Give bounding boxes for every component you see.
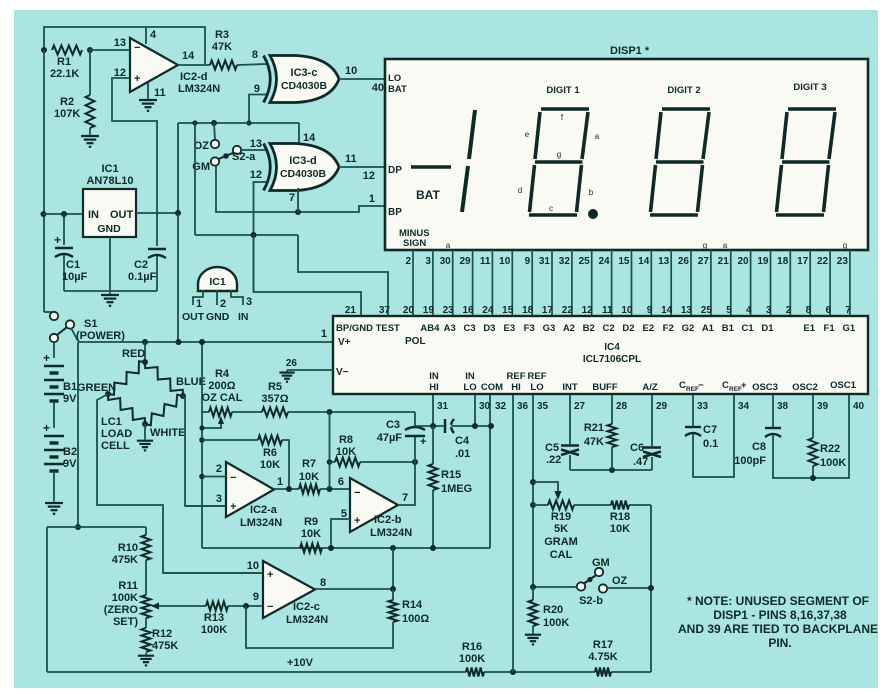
svg-text:10K: 10K — [610, 523, 630, 535]
wire RED node — [144, 342, 146, 362]
svg-text:CAL: CAL — [550, 549, 573, 561]
svg-text:5: 5 — [726, 305, 732, 316]
wire OZ net drop — [194, 123, 196, 235]
resistor R10 — [142, 535, 151, 560]
resistor R16 — [466, 668, 484, 677]
svg-text:11: 11 — [345, 153, 357, 165]
wire zero set top — [47, 526, 146, 528]
resistor R18 — [611, 501, 629, 510]
svg-text:47µF: 47µF — [377, 432, 403, 444]
svg-text:D2: D2 — [622, 323, 634, 334]
svg-text:25: 25 — [701, 305, 713, 316]
svg-text:.47: .47 — [633, 456, 648, 468]
svg-text:24: 24 — [482, 305, 494, 316]
svg-text:C5: C5 — [545, 442, 559, 454]
svg-text:DISP1 - PINS 8,16,37,38: DISP1 - PINS 8,16,37,38 — [713, 608, 847, 622]
node R8 top — [327, 409, 333, 415]
svg-text:33: 33 — [697, 401, 709, 412]
svg-text:100Ω: 100Ω — [402, 613, 429, 625]
svg-text:R15: R15 — [441, 469, 461, 481]
svg-text:R22: R22 — [820, 443, 840, 455]
R4 wiper — [202, 422, 221, 428]
capacitor C5 on pin27 — [569, 395, 571, 444]
svg-text:100K: 100K — [820, 457, 846, 469]
svg-text:LO: LO — [530, 382, 543, 393]
svg-text:G1: G1 — [843, 323, 856, 334]
wire IC1 OUT — [136, 212, 178, 214]
wire V- stub — [287, 369, 333, 371]
svg-text:30: 30 — [440, 256, 452, 267]
svg-text:11: 11 — [154, 87, 166, 99]
op-amp U-IC2-a — [226, 462, 274, 517]
svg-text:R13: R13 — [204, 612, 224, 624]
wire R18 right — [629, 504, 651, 506]
svg-text:29: 29 — [459, 256, 471, 267]
node junction R1 right — [87, 47, 93, 53]
capacitor C1 — [63, 214, 65, 245]
wire IC2-c out — [315, 588, 393, 590]
ground battery — [53, 500, 55, 503]
svg-text:(POWER): (POWER) — [76, 330, 125, 342]
svg-text:24: 24 — [598, 256, 610, 267]
svg-text:DIGIT 3: DIGIT 3 — [793, 82, 826, 93]
wire pin31 stub — [432, 395, 434, 426]
svg-text:BAT: BAT — [416, 188, 440, 202]
svg-text:SET): SET) — [113, 616, 138, 628]
resistor R14 — [389, 600, 398, 622]
node BP branch — [192, 120, 197, 125]
svg-text:OSC3: OSC3 — [752, 382, 778, 393]
svg-text:C2: C2 — [603, 323, 615, 334]
svg-text:A1: A1 — [702, 323, 715, 334]
svg-text:7: 7 — [845, 305, 851, 316]
resistor R5 — [262, 408, 288, 417]
display DISP1 box — [385, 59, 868, 250]
bridge resistor bottom-left — [108, 394, 145, 424]
svg-text:12: 12 — [114, 67, 126, 79]
svg-text:2: 2 — [220, 298, 226, 310]
svg-text:19: 19 — [757, 256, 769, 267]
node A junction R1 left — [41, 47, 47, 53]
resistor R7 — [299, 485, 320, 494]
wire C3C4 horizontal — [415, 425, 491, 427]
wire WHITE to ground — [144, 424, 146, 438]
node pin9 to OZ rail — [246, 120, 251, 125]
svg-text:E1: E1 — [803, 323, 815, 334]
svg-text:−: − — [230, 472, 236, 484]
svg-text:OZ: OZ — [194, 140, 210, 152]
switch S2-b contact OZ — [599, 584, 607, 592]
svg-text:OSC1: OSC1 — [830, 380, 857, 391]
svg-text:COM: COM — [481, 382, 503, 393]
wire pin5 jog — [331, 519, 350, 548]
resistor R9 — [300, 544, 322, 553]
svg-text:47K: 47K — [212, 41, 232, 53]
svg-text:1: 1 — [277, 476, 283, 488]
svg-text:−: − — [698, 380, 704, 391]
svg-text:+: + — [134, 73, 140, 85]
ground IC2-d pin11 — [147, 97, 149, 100]
svg-text:* NOTE: UNUSED SEGMENT OF: * NOTE: UNUSED SEGMENT OF — [687, 594, 869, 608]
svg-text:g: g — [843, 241, 847, 250]
svg-text:+: + — [43, 351, 50, 365]
wire IC3-c pin9 — [249, 95, 266, 124]
resistor R13 — [206, 602, 228, 611]
node OZ stub — [211, 120, 217, 126]
svg-text:10: 10 — [499, 256, 511, 267]
wire R8 right — [360, 461, 415, 463]
svg-text:a: a — [446, 241, 451, 250]
svg-text:R21: R21 — [584, 422, 604, 434]
svg-text:10: 10 — [247, 560, 259, 572]
svg-text:34: 34 — [738, 401, 750, 412]
svg-text:OZ: OZ — [612, 575, 628, 587]
svg-text:12: 12 — [250, 169, 262, 181]
wire rail to IC1 IN — [44, 213, 83, 215]
svg-text:2: 2 — [216, 463, 222, 475]
svg-text:18: 18 — [522, 305, 534, 316]
svg-text:ICL7106CPL: ICL7106CPL — [583, 354, 641, 365]
switch S2-a contact GM — [211, 157, 219, 165]
svg-text:IC3-d: IC3-d — [289, 155, 317, 167]
svg-text:7: 7 — [402, 492, 408, 504]
svg-text:A2: A2 — [563, 323, 575, 334]
svg-text:100K: 100K — [201, 624, 227, 636]
svg-text:39: 39 — [817, 401, 829, 412]
svg-text:22: 22 — [817, 256, 829, 267]
node pin30 — [472, 423, 478, 429]
svg-text:B1: B1 — [63, 381, 77, 393]
ground IC1 — [109, 292, 111, 295]
svg-text:20: 20 — [737, 256, 749, 267]
svg-text:b: b — [589, 188, 594, 197]
svg-text:OSC2: OSC2 — [792, 382, 818, 393]
node pin2 junction — [199, 474, 205, 480]
node pin31 — [430, 423, 436, 429]
svg-text:G2: G2 — [682, 323, 695, 334]
svg-text:15: 15 — [502, 305, 514, 316]
svg-text:D1: D1 — [761, 323, 774, 334]
svg-text:0.1: 0.1 — [703, 438, 718, 450]
wire common to pin13 IC3-d — [241, 149, 266, 151]
node wiper junction — [530, 479, 536, 485]
wire S1 to battery — [53, 342, 55, 358]
wire OZ net horizontal — [178, 122, 299, 124]
svg-text:R17: R17 — [593, 639, 613, 651]
resistor R21 — [611, 395, 613, 424]
node pin5 drop — [328, 545, 334, 551]
svg-text:32: 32 — [559, 256, 571, 267]
svg-text:475K: 475K — [112, 554, 138, 566]
svg-text:R4: R4 — [215, 368, 230, 380]
wire branch to pin37 — [298, 235, 388, 316]
wire R19 left — [533, 504, 548, 506]
svg-text:12: 12 — [363, 170, 375, 182]
battery B2 — [44, 435, 64, 438]
switch S2-b arm — [584, 576, 596, 584]
switch S2-a contact OZ — [211, 140, 219, 148]
node C1 top — [61, 211, 67, 217]
svg-text:BUFF: BUFF — [592, 382, 618, 393]
svg-text:.22: .22 — [546, 454, 561, 466]
node REF LO R19 — [530, 502, 536, 508]
resistor R8 — [335, 458, 360, 467]
svg-text:B2: B2 — [583, 323, 595, 334]
ground R12 — [145, 653, 147, 656]
svg-text:LO: LO — [463, 382, 476, 393]
svg-text:A3: A3 — [444, 323, 456, 334]
node OUT rail join — [176, 339, 182, 345]
svg-text:200Ω: 200Ω — [208, 380, 235, 392]
svg-text:R14: R14 — [402, 599, 423, 611]
svg-text:R3: R3 — [215, 29, 229, 41]
svg-text:1: 1 — [321, 328, 327, 340]
svg-text:C3: C3 — [464, 323, 476, 334]
svg-text:R11: R11 — [118, 580, 138, 592]
bridge resistor top-right — [145, 362, 183, 396]
wire rail to S1 — [43, 308, 45, 312]
svg-text:GREEN: GREEN — [77, 382, 116, 394]
node pin7 junction — [295, 209, 301, 215]
svg-text:C1: C1 — [742, 323, 755, 334]
wire bundle display to IC4 — [412, 250, 414, 316]
wire right rail — [650, 505, 652, 672]
svg-text:47K: 47K — [584, 436, 604, 448]
svg-text:a: a — [595, 132, 600, 141]
svg-text:20: 20 — [403, 305, 415, 316]
node REF HI drop — [510, 669, 516, 675]
wire IC3-c out to display — [339, 78, 385, 80]
svg-text:IC2-c: IC2-c — [293, 601, 320, 613]
svg-text:d: d — [518, 186, 522, 195]
svg-text:R9: R9 — [304, 516, 318, 528]
svg-text:a: a — [723, 241, 728, 250]
svg-text:28: 28 — [616, 401, 628, 412]
battery B1 — [44, 365, 64, 368]
svg-text:F2: F2 — [663, 323, 674, 334]
svg-text:10: 10 — [345, 65, 357, 77]
svg-text:LC1: LC1 — [101, 416, 122, 428]
svg-text:PIN.: PIN. — [768, 636, 791, 650]
svg-text:+: + — [741, 380, 747, 391]
wire +10V feedback top rail — [44, 27, 205, 65]
svg-text:38: 38 — [777, 401, 789, 412]
node bridge left GREEN — [105, 391, 111, 397]
capacitor C4 — [444, 419, 446, 433]
svg-text:8: 8 — [806, 305, 812, 316]
wire rail +10 to OZ net — [177, 123, 179, 213]
svg-text:11: 11 — [480, 256, 491, 267]
node R6 left — [199, 437, 205, 443]
svg-text:6: 6 — [826, 305, 832, 316]
svg-text:100K: 100K — [112, 592, 138, 604]
svg-text:+: + — [420, 436, 426, 448]
wire pin30 stub — [474, 395, 476, 426]
resistor R20 — [532, 587, 534, 600]
svg-text:13: 13 — [658, 256, 670, 267]
node IN junction — [41, 211, 47, 217]
svg-text:37: 37 — [379, 305, 391, 316]
svg-text:31: 31 — [437, 401, 449, 412]
svg-text:CD4030B: CD4030B — [280, 168, 327, 180]
wire OZ contact stub — [214, 123, 215, 140]
op-amp U-IC2-d — [130, 38, 178, 92]
wire bottom rail left — [47, 671, 466, 673]
svg-text:R1: R1 — [57, 56, 71, 68]
svg-text:3: 3 — [216, 493, 222, 505]
wire R4 top — [202, 411, 209, 413]
wire R7 to pin6 — [320, 488, 350, 490]
svg-text:475K: 475K — [152, 640, 178, 652]
svg-text:31: 31 — [539, 256, 551, 267]
svg-text:40: 40 — [372, 82, 384, 94]
R11 wiper arrow — [156, 605, 206, 607]
svg-text:26: 26 — [286, 358, 298, 369]
wire R4 to R5 — [232, 411, 262, 413]
svg-text:V+: V+ — [338, 337, 351, 348]
svg-text:22.1K: 22.1K — [50, 68, 79, 80]
svg-text:CELL: CELL — [101, 440, 130, 452]
svg-text:4.75K: 4.75K — [588, 651, 617, 663]
switch S2-b contact GM — [595, 568, 603, 576]
switch S1 top contact — [50, 312, 58, 320]
svg-text:BP/GND TEST: BP/GND TEST — [336, 323, 400, 334]
wire S2b left — [533, 586, 577, 588]
wire R8 left stub — [330, 461, 336, 463]
svg-text:3: 3 — [425, 256, 431, 267]
ground load cell — [144, 438, 146, 441]
switch S2-b contact common — [577, 582, 585, 590]
node pin32 — [488, 423, 494, 429]
node R14 top — [390, 586, 396, 592]
wire R8 branch — [329, 412, 331, 489]
svg-text:LOAD: LOAD — [101, 428, 132, 440]
wire pin 7 stub — [297, 188, 299, 212]
svg-text:D3: D3 — [483, 323, 495, 334]
svg-text:10K: 10K — [336, 446, 356, 458]
svg-text:IC1: IC1 — [209, 276, 226, 288]
svg-text:R7: R7 — [302, 458, 316, 470]
svg-text:GM: GM — [592, 557, 610, 569]
regulator U-IC1 box — [83, 189, 136, 237]
wire IC2-b out — [398, 437, 415, 505]
svg-text:IN: IN — [238, 311, 249, 323]
node RED drop — [142, 339, 148, 345]
svg-text:AB4: AB4 — [420, 323, 440, 334]
svg-text:9: 9 — [253, 591, 259, 603]
wire R2 stem — [89, 50, 91, 95]
resistor R6 — [258, 436, 282, 445]
svg-text:+: + — [43, 421, 50, 435]
svg-text:.01: .01 — [455, 448, 470, 460]
display minus segment — [411, 165, 451, 169]
capacitor C7 loop — [692, 395, 694, 426]
svg-text:IC4: IC4 — [604, 342, 620, 353]
switch S2-a arm — [219, 153, 235, 160]
svg-text:−: − — [354, 487, 360, 499]
svg-text:9: 9 — [647, 305, 653, 316]
svg-text:C6: C6 — [630, 442, 644, 454]
switch S1 bottom contact — [50, 334, 58, 342]
svg-text:A/Z: A/Z — [642, 382, 658, 393]
svg-text:LM324N: LM324N — [370, 527, 412, 539]
svg-text:C3: C3 — [386, 419, 400, 431]
svg-text:14: 14 — [661, 305, 673, 316]
display digit 3 segments — [788, 107, 836, 111]
pin 4 stub — [145, 27, 147, 44]
svg-text:B2: B2 — [63, 446, 77, 458]
wire R10 stem — [145, 527, 147, 535]
wire pin2 — [202, 476, 226, 478]
wire R11 R12 — [145, 618, 147, 628]
svg-text:R12: R12 — [152, 628, 172, 640]
pin 11 stub — [147, 83, 149, 97]
svg-text:V−: V− — [336, 367, 349, 378]
node pin12 branch — [251, 232, 257, 238]
svg-text:INT: INT — [562, 382, 578, 393]
svg-text:GND: GND — [206, 311, 230, 323]
wire R4 left rail — [201, 342, 203, 548]
node R15 bottom — [430, 545, 436, 551]
wire IC3-d out to display DP — [339, 166, 385, 168]
wire power rail horizontal — [78, 341, 333, 343]
wire pin12 IC3-d — [254, 182, 267, 292]
svg-text:OUT: OUT — [182, 311, 205, 323]
display digit 1 segments — [541, 107, 589, 111]
wire S2b right — [607, 587, 651, 589]
svg-text:10K: 10K — [301, 528, 321, 540]
svg-text:F3: F3 — [524, 323, 535, 334]
svg-text:−: − — [267, 601, 273, 613]
svg-text:IC2-b: IC2-b — [374, 514, 402, 526]
svg-text:G3: G3 — [543, 323, 556, 334]
node S2b left — [530, 584, 536, 590]
node buff join — [609, 467, 615, 473]
svg-text:IC1: IC1 — [101, 163, 118, 175]
svg-text:100K: 100K — [543, 617, 569, 629]
svg-text:S1: S1 — [84, 318, 97, 330]
svg-text:GND: GND — [97, 223, 121, 235]
capacitor C2 — [156, 213, 158, 246]
svg-text:9: 9 — [254, 83, 260, 95]
wire R6 right — [282, 440, 289, 489]
svg-text:13: 13 — [114, 37, 126, 49]
svg-text:3: 3 — [246, 296, 252, 308]
svg-text:REF: REF — [507, 371, 526, 382]
node R6 join — [286, 486, 292, 492]
svg-text:DIGIT 2: DIGIT 2 — [667, 85, 700, 96]
svg-text:E2: E2 — [642, 323, 654, 334]
svg-text:2: 2 — [405, 256, 411, 267]
wire C5 C6 bottom — [570, 469, 652, 471]
svg-text:27: 27 — [698, 256, 710, 267]
svg-text:AN78L10: AN78L10 — [86, 175, 133, 187]
wire pin10 — [163, 572, 263, 574]
svg-text:WHITE: WHITE — [150, 427, 185, 439]
resistor R3 — [210, 61, 237, 70]
wire R14 bottom loop — [246, 606, 393, 648]
svg-text:22: 22 — [562, 305, 574, 316]
svg-text:C4: C4 — [455, 435, 470, 447]
svg-text:SIGN: SIGN — [403, 238, 426, 249]
resistor R1 — [52, 46, 82, 55]
wire R6 stub — [202, 439, 258, 441]
potentiometer R4 — [209, 408, 232, 417]
svg-text:10K: 10K — [260, 459, 280, 471]
switch S1 mid contact — [66, 320, 74, 328]
wire left bottom rail — [46, 527, 48, 672]
wire net to pins 21 37 — [195, 234, 298, 236]
